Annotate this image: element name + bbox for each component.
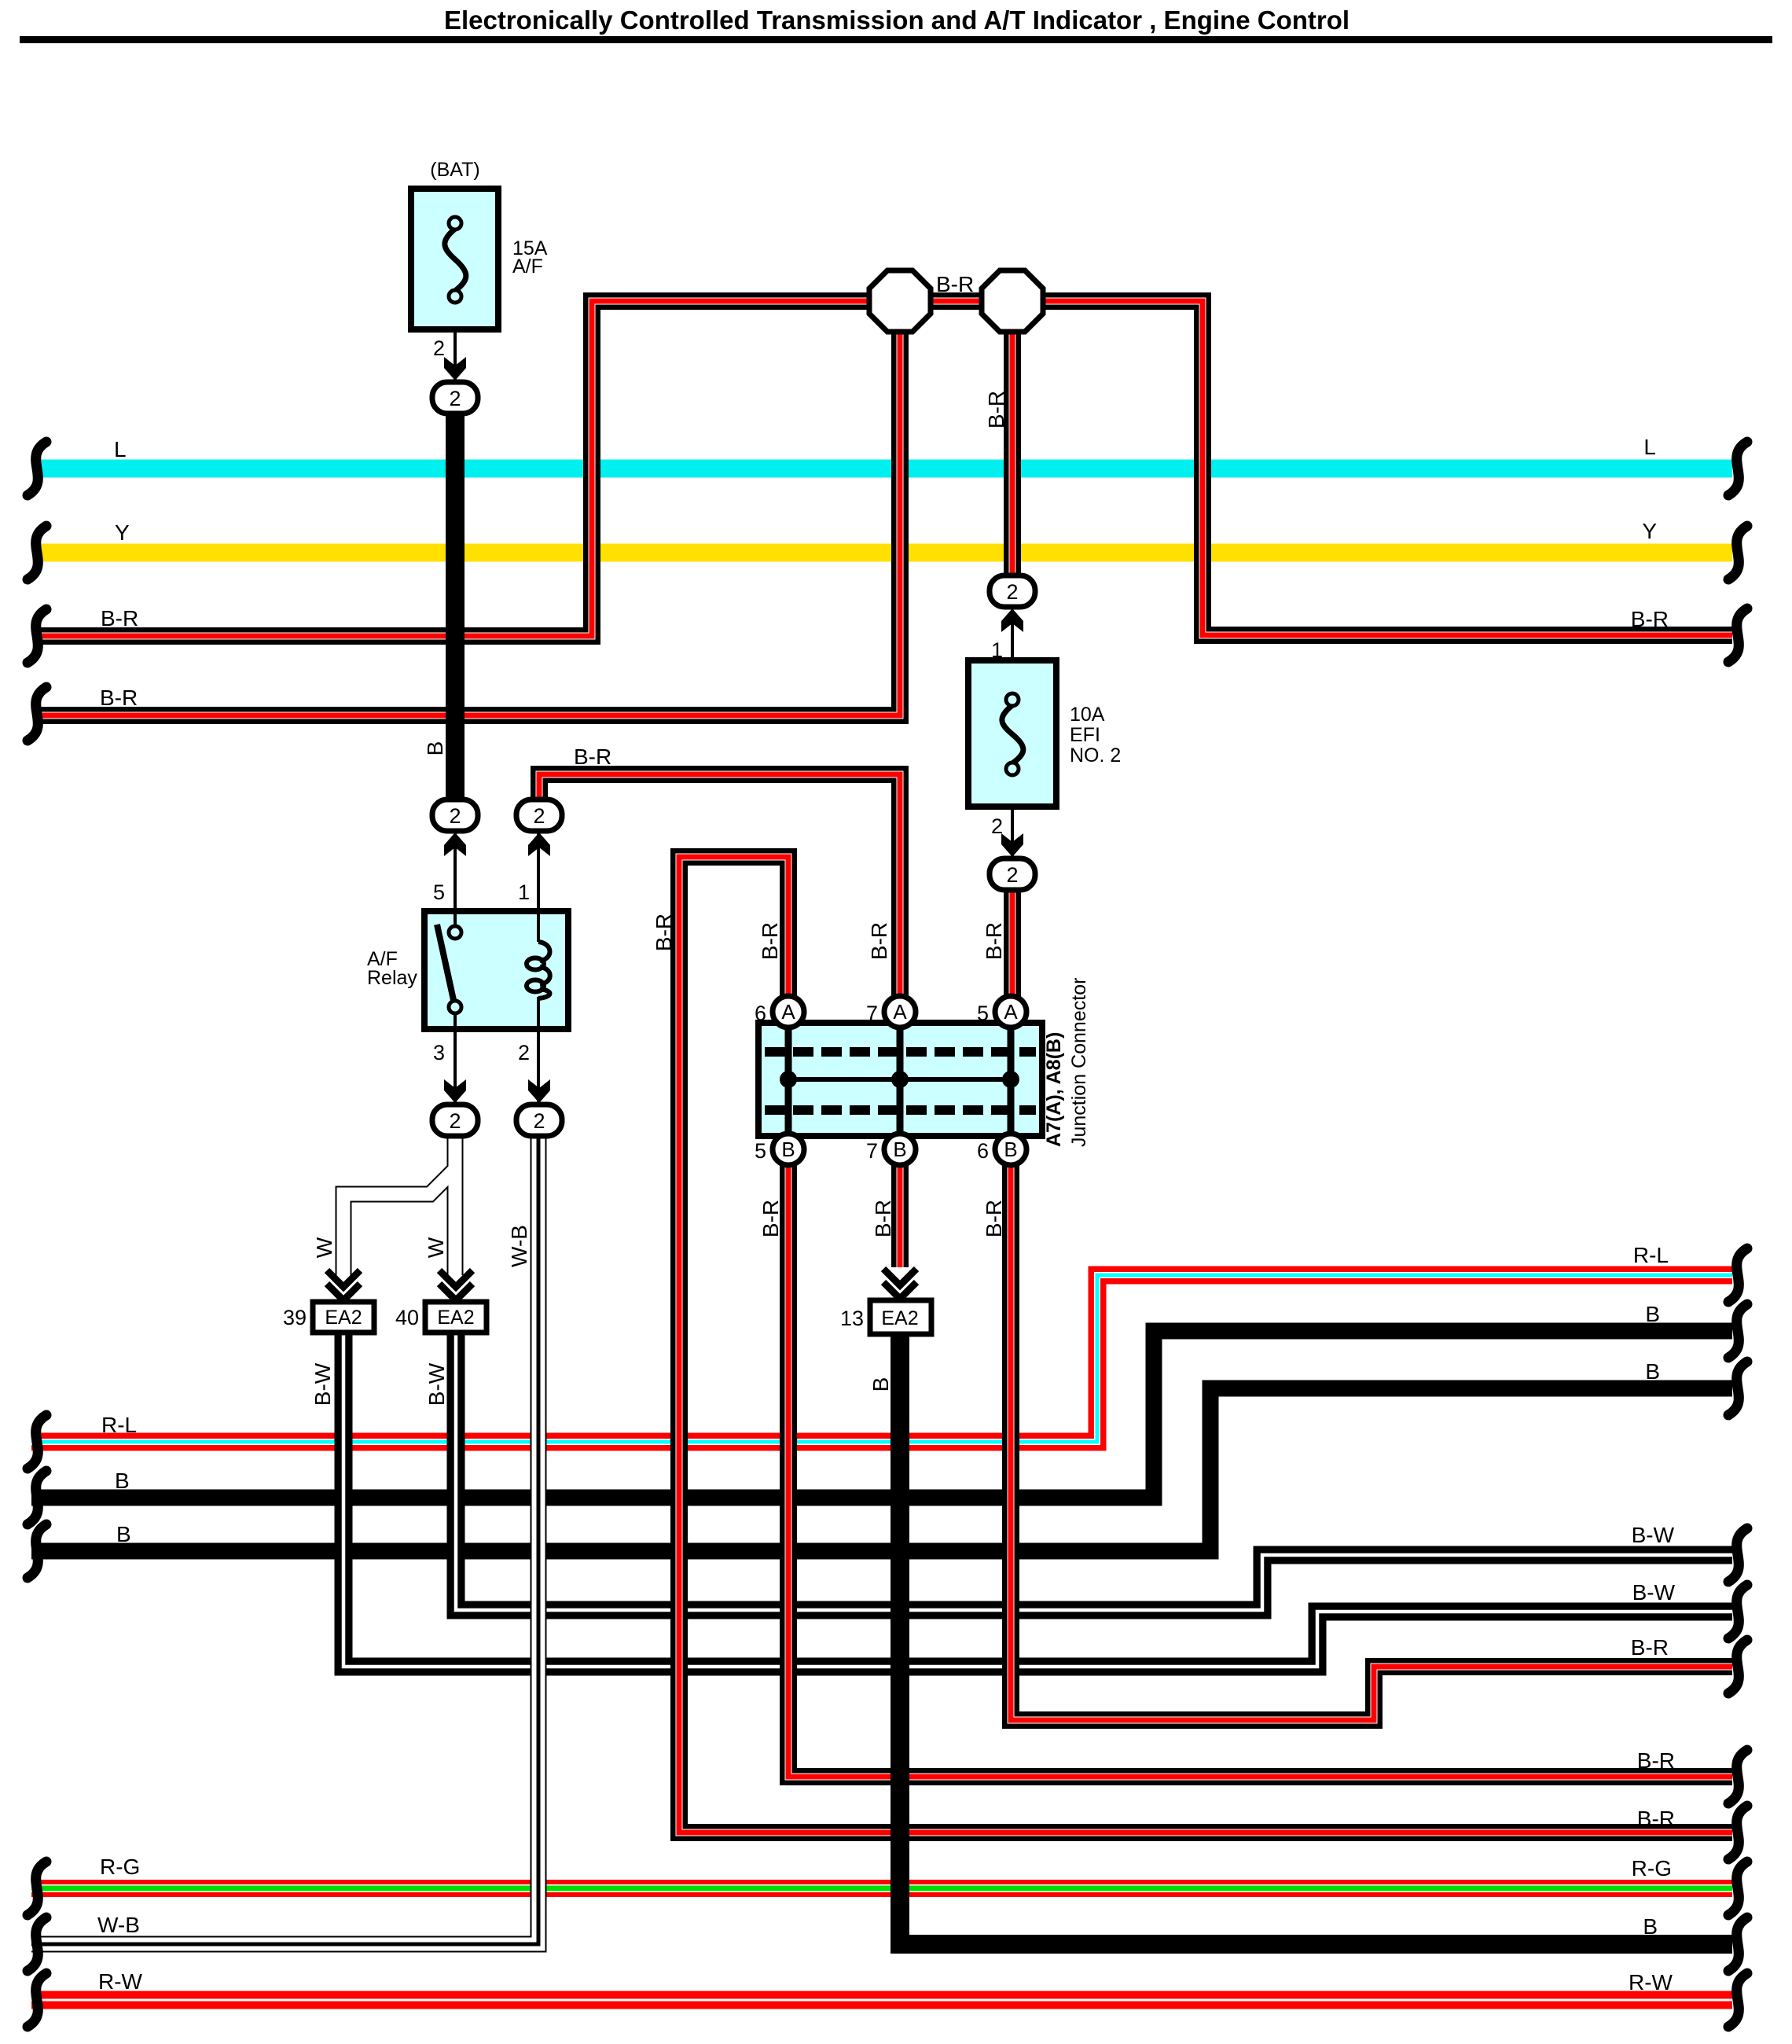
connector oval 2 above relay pin 1: [516, 800, 562, 831]
svg-text:6: 6: [977, 1139, 989, 1163]
svg-text:B-W: B-W: [424, 1362, 449, 1406]
relay switch arm: [437, 925, 454, 1000]
svg-text:3: 3: [433, 1041, 445, 1064]
svg-text:W-B: W-B: [97, 1913, 140, 1937]
svg-text:W-B: W-B: [507, 1225, 531, 1267]
wire W branch from relay pin 3 to EA2 39: [343, 1168, 456, 1275]
svg-text:B: B: [116, 1522, 131, 1546]
wire L (cyan band): [40, 460, 1732, 478]
arrow down into oval below 10A fuse: [1001, 833, 1023, 857]
svg-text:EA2: EA2: [437, 1307, 474, 1329]
wire B from EA2 13 down to bottom right row: [900, 1334, 1732, 1944]
svg-text:B-R: B-R: [574, 744, 611, 769]
ground arrow into EA2 39: [327, 1270, 360, 1300]
wire B-W from EA2 40 down and right with step: [456, 1333, 1732, 1610]
svg-text:R-G: R-G: [1632, 1856, 1672, 1880]
wire B-R main loop: left row, up, across octagon row, down, right row: [35, 301, 1732, 636]
octagon junction 1: [869, 270, 931, 332]
connector oval 2 below 15A fuse: [432, 382, 478, 414]
svg-text:B: B: [868, 1377, 893, 1392]
svg-text:5: 5: [755, 1139, 766, 1163]
svg-text:B-R: B-R: [982, 922, 1006, 960]
wire B row 1 with step: [31, 1331, 1732, 1498]
arrow down into oval below relay pin 2: [528, 1079, 550, 1103]
svg-text:10A: 10A: [1070, 704, 1105, 726]
relay pin 3 wire: [454, 1013, 457, 1104]
svg-text:39: 39: [283, 1306, 307, 1329]
title rule: [20, 36, 1772, 43]
svg-text:B-R: B-R: [871, 1200, 895, 1237]
svg-text:B-R: B-R: [758, 922, 782, 960]
wire B row 2 with step: [31, 1388, 1732, 1551]
relay switch contact circles: [449, 926, 461, 939]
junction connector A7(A) A8(B) box: [758, 1023, 1042, 1136]
svg-text:B: B: [115, 1469, 130, 1493]
svg-text:R-L: R-L: [1633, 1243, 1669, 1267]
svg-text:B: B: [423, 741, 447, 756]
svg-text:7: 7: [866, 1139, 878, 1163]
svg-text:B-W: B-W: [1632, 1523, 1675, 1547]
svg-text:13: 13: [840, 1307, 864, 1330]
svg-text:EFI: EFI: [1070, 724, 1100, 746]
svg-text:Electronically Controlled Tran: Electronically Controlled Transmission a…: [444, 6, 1350, 35]
wire B-R from octagon 2 down to connector oval: [1004, 324, 1021, 579]
svg-text:B-R: B-R: [100, 686, 138, 710]
ground EA2 40 box: [425, 1302, 487, 1333]
wire W from relay pin 3 oval to EA2 40: [447, 1136, 464, 1275]
svg-text:B-W: B-W: [310, 1362, 335, 1406]
svg-text:A/F: A/F: [512, 256, 543, 278]
svg-text:1: 1: [518, 880, 530, 904]
svg-text:B-R: B-R: [982, 1200, 1006, 1237]
junction connector dashed rows: [765, 1052, 1036, 1110]
svg-text:Y: Y: [115, 520, 130, 545]
svg-text:5: 5: [433, 880, 445, 904]
svg-text:2: 2: [991, 814, 1003, 838]
svg-text:L: L: [1643, 435, 1656, 459]
junction pin 6A: [773, 996, 804, 1028]
svg-text:B-R: B-R: [867, 922, 891, 960]
arrow down into oval below relay pin 3: [444, 1079, 466, 1103]
wire pin 2 of 15A fuse: [454, 329, 457, 382]
junction pin 7A: [884, 996, 916, 1028]
wire pin 2 of 10A fuse: [1011, 807, 1014, 858]
svg-text:B-R: B-R: [984, 391, 1008, 428]
wire Y (yellow band): [40, 544, 1732, 562]
ground EA2 39 box: [313, 1302, 374, 1333]
svg-text:6: 6: [755, 1002, 766, 1025]
svg-text:B-R: B-R: [101, 606, 138, 630]
wire B from 15A fuse oval to relay oval: [446, 410, 465, 802]
fuse 10A EFI NO.2 box: [968, 660, 1056, 807]
svg-text:B-R: B-R: [936, 272, 974, 296]
wire B-R from EFI fuse oval down to junction pin 5A: [1004, 888, 1021, 1000]
wire R-G row: [31, 1880, 1732, 1897]
junction pin 7B: [884, 1134, 916, 1165]
junction connector internal pin bars: [788, 1023, 1011, 1136]
svg-text:W: W: [312, 1237, 336, 1258]
wire B-R from junction pin 5B down to right row: [788, 1162, 1732, 1777]
relay coil: [538, 942, 550, 961]
relay pin 5 wire: [454, 833, 457, 928]
svg-text:Junction Connector: Junction Connector: [1068, 978, 1090, 1147]
svg-text:5: 5: [977, 1002, 989, 1025]
ground arrow into EA2 13: [883, 1269, 916, 1299]
relay pin 2 wire: [537, 997, 540, 1104]
svg-text:A7(A), A8(B): A7(A), A8(B): [1043, 1032, 1065, 1147]
connector oval 2 below 10A fuse: [990, 858, 1035, 890]
svg-text:2: 2: [518, 1041, 530, 1064]
svg-text:W: W: [424, 1237, 448, 1258]
svg-text:R-L: R-L: [101, 1413, 137, 1437]
svg-text:B-R: B-R: [1637, 1748, 1675, 1773]
svg-text:EA2: EA2: [881, 1307, 918, 1329]
wire W-B from relay pin 2 oval down to bottom left row: [31, 1136, 538, 1944]
svg-text:R-G: R-G: [100, 1855, 140, 1879]
wire R-L row with step: [31, 1275, 1732, 1442]
svg-text:Y: Y: [1642, 519, 1657, 543]
svg-text:B-R: B-R: [652, 914, 676, 951]
ground EA2 13 box: [870, 1300, 931, 1334]
junction pin 5B: [773, 1134, 804, 1165]
connector oval 2 above relay pin 5: [432, 800, 478, 831]
svg-text:EA2: EA2: [325, 1307, 362, 1329]
wire R-W row: [31, 1991, 1732, 2009]
right edge break symbols: [1728, 442, 1747, 495]
svg-text:B: B: [1645, 1359, 1660, 1384]
svg-text:1: 1: [991, 638, 1003, 662]
wire pin 1 of 10A fuse: [1011, 610, 1014, 660]
wire B-R from junction pin 7B down to EA2 13: [891, 1162, 909, 1267]
wire B-W from EA2 39 down and right with step: [343, 1333, 1732, 1667]
svg-text:R-W: R-W: [1629, 1970, 1673, 1994]
svg-text:B-R: B-R: [1637, 1807, 1675, 1831]
svg-text:B: B: [1643, 1914, 1658, 1939]
junction pin 5A: [995, 996, 1026, 1028]
arrow up into relay top left oval: [444, 833, 466, 856]
junction connector bus line with node dots: [788, 1077, 1011, 1082]
svg-text:B: B: [1645, 1302, 1660, 1326]
arrow up into relay top right oval: [528, 833, 550, 856]
arrow into oval below 15A fuse: [444, 357, 466, 380]
svg-text:7: 7: [866, 1002, 878, 1025]
wire B-R inverted U from junction pin 6A to bottom right row: [679, 857, 1732, 1833]
svg-text:R-W: R-W: [98, 1969, 143, 1994]
svg-text:L: L: [114, 437, 127, 461]
wire B-R from junction pin 6B down right with step: [1011, 1162, 1732, 1720]
arrow up into oval above 10A fuse: [1001, 608, 1023, 632]
fuse 15A A/F box: [411, 189, 498, 329]
connector oval 2 below relay pin 3: [432, 1105, 478, 1136]
svg-text:B-R: B-R: [758, 1200, 783, 1237]
svg-text:B-R: B-R: [1631, 1635, 1669, 1660]
wire B-R second left row up to octagon 1: [35, 324, 900, 715]
junction pin 6B: [995, 1134, 1026, 1165]
connector oval 2 above 10A fuse: [990, 575, 1035, 607]
octagon junction 2: [982, 270, 1043, 332]
relay pin 1 wire: [537, 833, 540, 942]
svg-text:Relay: Relay: [367, 967, 417, 989]
svg-text:(BAT): (BAT): [430, 159, 479, 181]
ground arrow into EA2 40: [439, 1270, 472, 1300]
A/F relay box: [424, 911, 568, 1029]
svg-text:B-W: B-W: [1632, 1580, 1676, 1605]
fuse 15A element: [445, 229, 466, 291]
connector oval 2 below relay pin 2: [516, 1105, 562, 1136]
svg-text:2: 2: [433, 336, 445, 360]
left edge break symbols: [28, 442, 46, 495]
fuse 10A element: [1002, 705, 1023, 763]
svg-text:NO. 2: NO. 2: [1070, 744, 1121, 766]
wire B-R relay pin1 elbow row to junction pin 7A: [539, 774, 900, 1000]
svg-text:B-R: B-R: [1631, 607, 1669, 631]
svg-text:40: 40: [395, 1306, 419, 1329]
